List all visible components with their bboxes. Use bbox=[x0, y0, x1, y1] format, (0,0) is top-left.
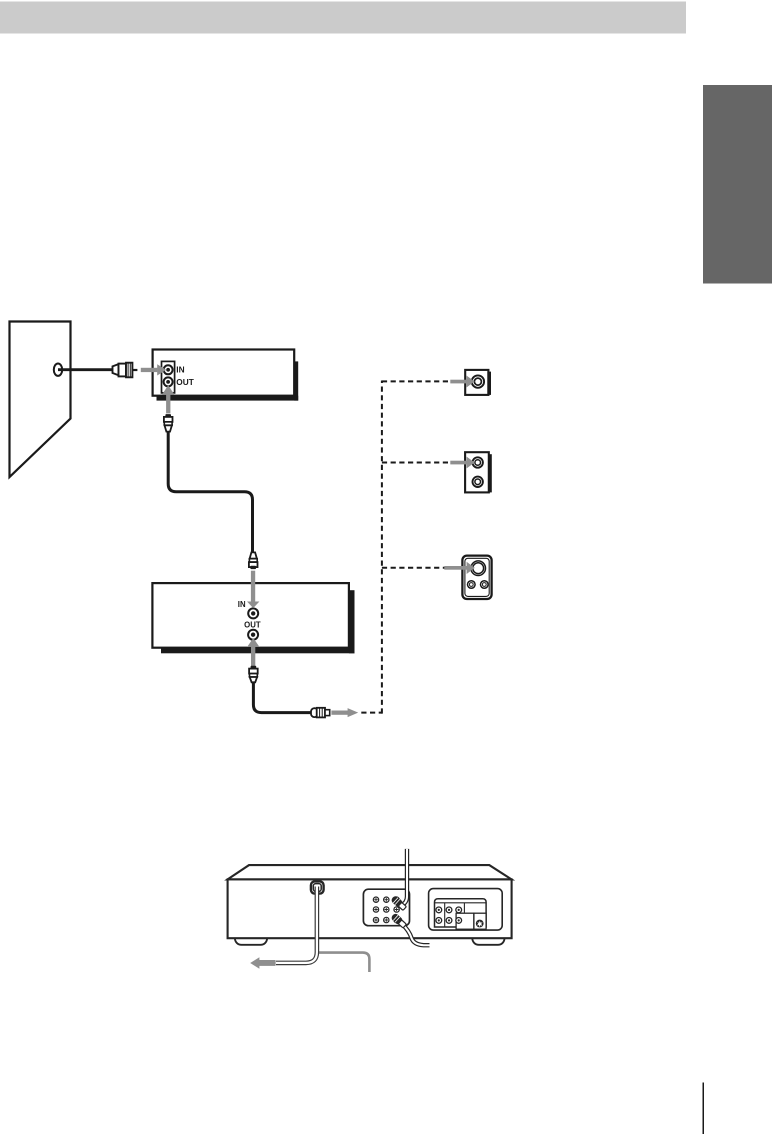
gray arrow up into OUT jack bbox=[162, 385, 174, 413]
device 1 OUT jack bbox=[164, 377, 173, 386]
svg-text:IN: IN bbox=[176, 365, 184, 375]
device 2 IN jack bbox=[248, 608, 258, 618]
gray arrow into box 3 bbox=[444, 562, 475, 574]
long cable device1 OUT to device2 IN bbox=[168, 431, 252, 553]
dashed link horizontal bottom bbox=[361, 712, 382, 714]
star screw bbox=[476, 920, 484, 928]
speaker terminal block bbox=[435, 899, 487, 927]
page rule bottom right bbox=[703, 1083, 705, 1134]
coax cable from wall bbox=[58, 368, 114, 371]
device 1 shadow bbox=[294, 361, 298, 400]
header bar bbox=[0, 2, 686, 34]
svg-text:IN: IN bbox=[238, 600, 246, 609]
jack box 2 bbox=[465, 452, 492, 492]
side tab bbox=[703, 85, 772, 284]
device 2 shadow bbox=[349, 590, 355, 653]
terminal circles bbox=[436, 907, 462, 923]
device 1 (cable box) bbox=[153, 350, 295, 396]
FM antenna connector bbox=[311, 881, 324, 893]
RCA plug (up) below device 1 bbox=[164, 414, 173, 432]
screw sub-box bbox=[474, 913, 486, 929]
receiver left foot bbox=[235, 930, 267, 945]
device 2 (VCR) bbox=[152, 583, 349, 648]
gray arrow right from F-connector bbox=[331, 708, 358, 717]
device 1 IN jack bbox=[164, 365, 173, 374]
wall panel bbox=[10, 322, 71, 478]
F-connector nut bbox=[126, 363, 132, 378]
F-connector (right) on cable end bbox=[311, 708, 318, 717]
receiver right foot bbox=[472, 930, 504, 945]
F-connector body bbox=[119, 364, 127, 377]
left jack panel (3x3 screws) bbox=[363, 889, 409, 926]
gray arrow into box 1 bbox=[450, 376, 474, 388]
dashed link vertical bbox=[381, 381, 383, 714]
gray arrow into box 2 bbox=[450, 457, 474, 469]
right jack panel bbox=[429, 889, 503, 931]
gray arrow into device 1 IN jack bbox=[141, 364, 166, 375]
jack box 1 bbox=[465, 370, 491, 395]
jack box 3 bbox=[462, 556, 491, 599]
gray arrow down into device2 IN bbox=[247, 571, 259, 608]
gray FM wire antenna bbox=[318, 953, 369, 972]
dashed branch to box 1 bbox=[382, 380, 450, 382]
gray arrow left (antenna cable direction) bbox=[250, 957, 275, 969]
F-connector plug boot bbox=[113, 364, 119, 375]
svg-text:OUT: OUT bbox=[176, 377, 194, 387]
screw terminals grid bbox=[373, 897, 399, 923]
receiver top face bbox=[228, 865, 512, 879]
RCA plug (down) above device 2 bbox=[249, 552, 258, 569]
wall outlet hole bbox=[54, 364, 62, 376]
plug 1 (into top right screw) bbox=[390, 895, 407, 911]
device 2 OUT jack bbox=[248, 630, 258, 640]
antenna cable (down and left) bbox=[276, 887, 317, 963]
terminal sub-box bbox=[456, 913, 474, 929]
dashed branch to box 2 bbox=[382, 462, 450, 464]
svg-text:OUT: OUT bbox=[244, 621, 261, 630]
gray arrow up into device2 OUT bbox=[247, 638, 259, 666]
cable device2 OUT to F-connector bbox=[253, 682, 311, 713]
cable B out of bottom right screw bbox=[403, 925, 430, 946]
RCA plug (up) below device 2 bbox=[249, 666, 258, 683]
device 1 jack panel bbox=[162, 361, 175, 393]
receiver front face bbox=[228, 879, 512, 938]
plug 2 (into bottom right screw) bbox=[390, 912, 407, 928]
cable A from above into panel bbox=[401, 849, 407, 905]
dashed branch to box 3 bbox=[382, 567, 450, 569]
F-connector center pin bbox=[132, 369, 137, 371]
